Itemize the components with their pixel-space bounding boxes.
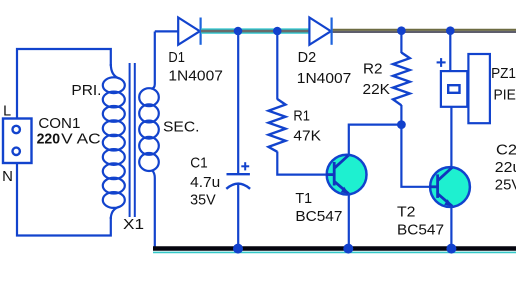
svg-text:C1: C1 bbox=[190, 155, 208, 171]
svg-text:V AC: V AC bbox=[61, 132, 100, 148]
diode D1 bbox=[178, 18, 200, 45]
wire R2 branch bbox=[400, 31, 402, 53]
svg-text:1N4007: 1N4007 bbox=[168, 68, 223, 84]
node dot rail-T1 emitter bbox=[343, 244, 353, 254]
transformer X1 primary winding bbox=[103, 64, 125, 219]
wire R2 bottom to node bbox=[400, 105, 402, 125]
transformer X1 secondary winding bbox=[139, 32, 159, 249]
svg-text:PZ1: PZ1 bbox=[491, 66, 516, 82]
svg-text:1N4007: 1N4007 bbox=[297, 71, 352, 87]
transistor T2 bbox=[430, 167, 470, 207]
node dot rail-R1 bbox=[273, 27, 282, 36]
svg-text:25V: 25V bbox=[495, 178, 516, 194]
node dot rail-C1 bottom bbox=[233, 244, 243, 254]
wire R1 bottom to T1 base bbox=[277, 152, 334, 175]
svg-text:47K: 47K bbox=[293, 128, 321, 144]
node dot R2-T1-T2 bbox=[397, 120, 406, 129]
svg-text:4.7u: 4.7u bbox=[190, 175, 220, 191]
wire C1 branch bbox=[237, 31, 239, 174]
svg-text:D2: D2 bbox=[298, 50, 317, 66]
resistor R1 bbox=[269, 99, 286, 152]
node dot rail-C1 bbox=[234, 27, 243, 36]
transistor T1 bbox=[326, 155, 367, 195]
node dot rail-PZ1 bbox=[446, 26, 455, 35]
svg-text:22u: 22u bbox=[495, 160, 516, 176]
svg-text:PIEZO: PIEZO bbox=[494, 87, 516, 103]
svg-text:BC547: BC547 bbox=[397, 223, 444, 239]
wire T2 emitter down bbox=[450, 206, 452, 249]
wire T2 collector up to PZ1 bbox=[450, 107, 452, 168]
wire secondary top to D1 anode bbox=[155, 30, 178, 32]
svg-text:SEC.: SEC. bbox=[163, 120, 200, 136]
wire R1 branch top bbox=[276, 31, 278, 100]
wire primary loop top bbox=[17, 49, 111, 119]
wire T1 collector up and to R2 node bbox=[349, 125, 402, 156]
connector CON1 bbox=[3, 119, 32, 164]
piezo buzzer PZ1 bbox=[441, 54, 490, 123]
svg-text:CON1: CON1 bbox=[38, 116, 80, 132]
wire node down to T2 base bbox=[401, 125, 437, 187]
svg-text:T2: T2 bbox=[397, 204, 416, 220]
svg-text:35V: 35V bbox=[190, 192, 216, 208]
svg-text:C2: C2 bbox=[496, 143, 516, 159]
plus sign C1 bbox=[241, 162, 249, 170]
resistor R2 bbox=[393, 53, 410, 106]
top rail after D2 (olive/gray) bbox=[333, 30, 516, 32]
svg-text:22K: 22K bbox=[363, 82, 391, 98]
svg-text:N: N bbox=[2, 169, 13, 185]
bottom ground rail (black with cyan underline) bbox=[153, 249, 516, 253]
node dot rail-T2 emitter bbox=[446, 244, 456, 254]
svg-text:X1: X1 bbox=[123, 217, 144, 233]
svg-text:D1: D1 bbox=[168, 50, 185, 66]
svg-text:220: 220 bbox=[37, 132, 61, 148]
svg-text:T1: T1 bbox=[295, 191, 312, 207]
node dot rail-R2 bbox=[397, 26, 406, 35]
wire T1 emitter down bbox=[348, 193, 350, 248]
svg-text:R1: R1 bbox=[293, 109, 310, 125]
svg-text:R2: R2 bbox=[363, 62, 383, 78]
svg-text:BC547: BC547 bbox=[295, 209, 342, 225]
capacitor C1 bbox=[226, 174, 250, 248]
svg-text:L: L bbox=[3, 103, 11, 119]
diode D2 bbox=[309, 18, 331, 45]
wire primary loop bottom bbox=[17, 163, 111, 236]
transformer X1 core bbox=[130, 63, 135, 217]
wire PZ1 top lead bbox=[449, 31, 451, 71]
svg-text:PRI.: PRI. bbox=[71, 83, 101, 99]
plus sign PZ1 bbox=[437, 58, 446, 67]
highlighted wire D1 to D2 (cyan with gray core) bbox=[201, 28, 310, 33]
